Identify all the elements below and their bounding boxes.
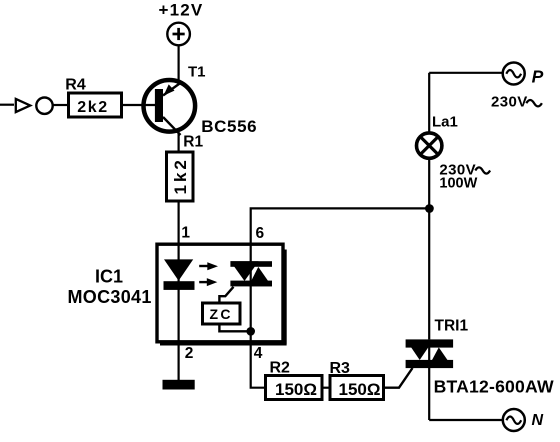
ground [163, 380, 195, 390]
light arrow lower [199, 278, 217, 286]
svg-text:2: 2 [185, 345, 194, 362]
wire through TRI1 [428, 339, 430, 420]
wire photo-triac gate to ZC [219, 287, 233, 303]
wire R4 to T1 base [122, 104, 156, 106]
wire T1 collector to R1 [178, 133, 180, 152]
zero-cross block ZC [203, 303, 241, 324]
svg-text:R1: R1 [183, 134, 203, 151]
wire ZC to pin4 node [219, 324, 250, 331]
svg-text:IC1: IC1 [95, 267, 123, 287]
input stub wire [0, 104, 14, 106]
resistor R2 [266, 376, 323, 400]
resistor R4 [69, 93, 122, 117]
svg-text:2k2: 2k2 [77, 99, 109, 116]
triac TRI1 [406, 339, 454, 368]
wire IC1 pin6 up and right to junction [251, 208, 430, 244]
resistor R1 [167, 152, 194, 201]
svg-text:150Ω: 150Ω [339, 380, 381, 399]
wire pin1 through LED [178, 244, 180, 342]
wire lamp to junction [428, 159, 430, 208]
svg-text:TRI1: TRI1 [435, 318, 469, 335]
svg-text:1k2: 1k2 [171, 157, 190, 194]
light arrow upper [199, 262, 218, 270]
svg-text:100W: 100W [439, 176, 477, 192]
wire TRI1 to N terminal [429, 419, 503, 421]
LED anode triangle inside IC1 [164, 259, 193, 280]
lamp La1 [417, 133, 442, 158]
junction dot main line [425, 204, 434, 213]
wire pin4 to R2 [251, 342, 266, 388]
wire junction to TRI1 [428, 208, 430, 339]
input terminal circle [36, 98, 52, 114]
wire R2 to R3 [322, 387, 330, 389]
terminal N circle [503, 409, 525, 431]
wire R1 to IC1 pin1 [178, 201, 180, 244]
lamp wave symbol [475, 167, 490, 173]
mains wave symbol [526, 100, 542, 106]
svg-text:4: 4 [254, 345, 263, 362]
optocoupler IC1 box [157, 244, 283, 342]
wire pin6 through photo-triac [250, 244, 252, 342]
wire pin2 to ground [178, 342, 180, 380]
svg-text:T1: T1 [188, 64, 206, 81]
resistor R3 [330, 376, 384, 400]
input arrow symbol [16, 99, 30, 112]
svg-text:1: 1 [181, 224, 190, 241]
power +12V terminal circle [167, 23, 190, 46]
svg-text:BC556: BC556 [201, 117, 257, 136]
svg-text:150Ω: 150Ω [275, 380, 317, 399]
transistor T1 [144, 80, 196, 135]
wire P terminal to main line [429, 72, 502, 74]
wire R3 to TRI1 gate [384, 368, 413, 388]
svg-text:ZC: ZC [209, 306, 232, 322]
svg-text:+12V: +12V [159, 1, 204, 20]
svg-text:R4: R4 [65, 77, 86, 94]
LED cathode bar [164, 281, 195, 290]
svg-text:R2: R2 [270, 360, 291, 377]
wire +12V to T1 emitter [178, 45, 180, 80]
svg-text:6: 6 [255, 225, 264, 242]
svg-text:BTA12-600AW: BTA12-600AW [434, 376, 554, 396]
wire input circle to R4 [54, 104, 69, 106]
svg-text:MOC3041: MOC3041 [68, 287, 152, 307]
svg-text:P: P [532, 67, 544, 87]
svg-text:230V: 230V [491, 94, 528, 111]
wire main line down to lamp [428, 73, 430, 132]
terminal P circle [503, 63, 525, 85]
svg-text:N: N [532, 412, 544, 429]
photo-triac inside IC1 [230, 261, 272, 286]
svg-text:La1: La1 [432, 113, 458, 130]
IC1 box shadow [160, 250, 287, 345]
junction dot inside IC1 [246, 327, 255, 336]
